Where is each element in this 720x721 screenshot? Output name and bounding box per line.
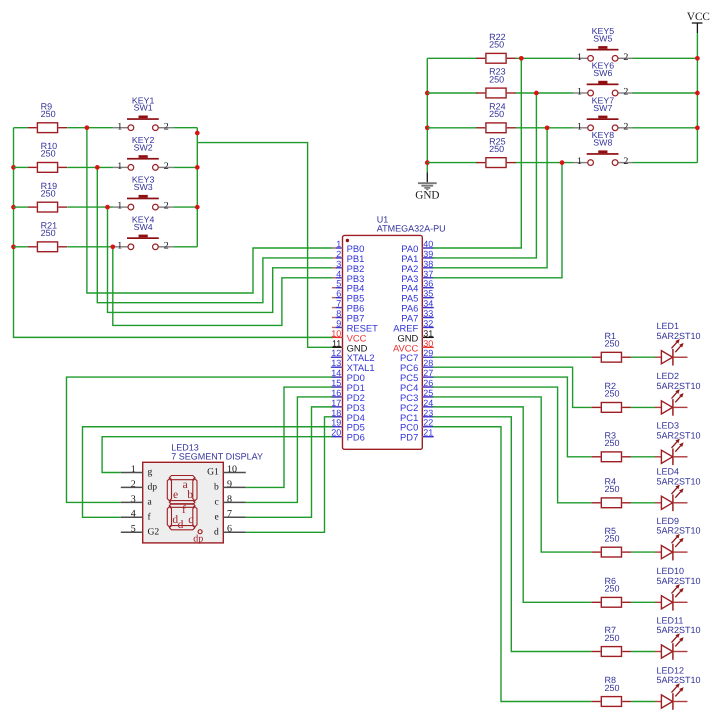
svg-text:3: 3 — [131, 494, 136, 505]
svg-text:250: 250 — [605, 683, 620, 693]
svg-text:5AR2ST10: 5AR2ST10 — [657, 625, 701, 635]
svg-text:PD7: PD7 — [400, 432, 418, 443]
svg-text:LED1: LED1 — [657, 321, 680, 331]
svg-text:31: 31 — [423, 328, 433, 338]
svg-text:8: 8 — [336, 309, 341, 319]
svg-text:250: 250 — [605, 438, 620, 448]
svg-text:13: 13 — [331, 358, 341, 368]
svg-text:1: 1 — [577, 52, 582, 63]
svg-text:10: 10 — [227, 464, 237, 475]
svg-text:25: 25 — [423, 388, 433, 398]
svg-text:ATMEGA32A-PU: ATMEGA32A-PU — [377, 224, 446, 234]
svg-text:5AR2ST10: 5AR2ST10 — [657, 430, 701, 440]
svg-text:c: c — [188, 514, 193, 526]
svg-text:SW3: SW3 — [134, 182, 153, 192]
svg-text:2: 2 — [623, 87, 628, 98]
svg-text:28: 28 — [423, 358, 433, 368]
svg-text:250: 250 — [41, 149, 56, 159]
svg-text:250: 250 — [605, 389, 620, 399]
svg-text:c: c — [215, 497, 219, 508]
svg-text:8: 8 — [227, 494, 232, 505]
svg-text:27: 27 — [423, 368, 433, 378]
svg-text:LED10: LED10 — [657, 566, 685, 576]
svg-text:250: 250 — [41, 188, 56, 198]
svg-text:LED2: LED2 — [657, 371, 680, 381]
svg-text:SW5: SW5 — [593, 33, 612, 43]
svg-text:LED12: LED12 — [657, 665, 685, 675]
svg-text:250: 250 — [41, 228, 56, 238]
svg-text:29: 29 — [423, 348, 433, 358]
svg-text:a: a — [148, 497, 153, 508]
svg-text:dp: dp — [148, 482, 158, 493]
svg-text:40: 40 — [423, 239, 433, 249]
svg-text:5AR2ST10: 5AR2ST10 — [657, 675, 701, 685]
svg-text:1: 1 — [577, 121, 582, 132]
svg-text:24: 24 — [423, 398, 433, 408]
svg-text:LED4: LED4 — [657, 467, 680, 477]
svg-text:34: 34 — [423, 299, 433, 309]
svg-text:1: 1 — [117, 121, 122, 132]
svg-text:e: e — [173, 489, 178, 501]
svg-text:3: 3 — [336, 259, 341, 269]
svg-text:250: 250 — [605, 484, 620, 494]
svg-text:250: 250 — [489, 109, 504, 119]
svg-text:SW4: SW4 — [134, 222, 153, 232]
svg-text:18: 18 — [331, 408, 341, 418]
svg-text:11: 11 — [332, 338, 341, 348]
svg-text:250: 250 — [41, 109, 56, 119]
svg-text:15: 15 — [331, 378, 341, 388]
svg-text:250: 250 — [489, 74, 504, 84]
svg-text:2: 2 — [623, 156, 628, 167]
svg-text:1: 1 — [117, 201, 122, 212]
svg-text:LED9: LED9 — [657, 516, 680, 526]
svg-text:g: g — [148, 467, 153, 478]
svg-text:17: 17 — [331, 398, 341, 408]
svg-text:4: 4 — [336, 269, 341, 279]
svg-text:2: 2 — [623, 52, 628, 63]
svg-text:10: 10 — [331, 328, 341, 338]
svg-text:30: 30 — [423, 338, 433, 348]
svg-text:5AR2ST10: 5AR2ST10 — [657, 381, 701, 391]
svg-text:2: 2 — [623, 121, 628, 132]
svg-text:d: d — [214, 527, 219, 538]
svg-text:250: 250 — [605, 533, 620, 543]
svg-text:5: 5 — [336, 279, 341, 289]
svg-text:37: 37 — [423, 269, 433, 279]
svg-text:36: 36 — [423, 279, 433, 289]
svg-text:2: 2 — [336, 249, 341, 259]
svg-text:9: 9 — [227, 479, 232, 490]
svg-text:LED3: LED3 — [657, 421, 680, 431]
svg-text:1: 1 — [577, 156, 582, 167]
svg-text:32: 32 — [423, 318, 433, 328]
svg-text:SW2: SW2 — [134, 142, 153, 152]
svg-text:5: 5 — [131, 524, 136, 535]
svg-text:2: 2 — [164, 161, 169, 172]
svg-text:7 SEGMENT DISPLAY: 7 SEGMENT DISPLAY — [171, 451, 263, 461]
svg-text:dp: dp — [193, 534, 203, 545]
svg-text:SW8: SW8 — [593, 138, 612, 148]
svg-text:b: b — [214, 482, 219, 493]
svg-text:5AR2ST10: 5AR2ST10 — [657, 331, 701, 341]
svg-text:250: 250 — [489, 40, 504, 50]
svg-text:16: 16 — [331, 388, 341, 398]
svg-text:1: 1 — [117, 240, 122, 251]
svg-text:VCC: VCC — [687, 11, 710, 23]
svg-text:33: 33 — [423, 309, 433, 319]
svg-text:LED11: LED11 — [657, 615, 684, 625]
svg-text:2: 2 — [131, 479, 136, 490]
svg-text:2: 2 — [164, 240, 169, 251]
svg-text:20: 20 — [331, 428, 341, 438]
svg-text:1: 1 — [131, 464, 136, 475]
svg-text:G1: G1 — [207, 467, 219, 478]
svg-text:2: 2 — [164, 121, 169, 132]
svg-text:35: 35 — [423, 289, 433, 299]
svg-text:7: 7 — [227, 509, 232, 520]
svg-text:6: 6 — [227, 524, 232, 535]
svg-text:9: 9 — [336, 318, 341, 328]
svg-text:GND: GND — [415, 189, 439, 201]
svg-text:7: 7 — [336, 299, 341, 309]
svg-text:250: 250 — [489, 144, 504, 154]
svg-text:SW6: SW6 — [593, 68, 612, 78]
svg-text:1: 1 — [336, 239, 341, 249]
svg-text:1: 1 — [117, 161, 122, 172]
svg-text:39: 39 — [423, 249, 433, 259]
svg-text:22: 22 — [423, 418, 433, 428]
svg-text:PD6: PD6 — [347, 432, 365, 443]
svg-text:d: d — [178, 519, 184, 531]
svg-text:250: 250 — [605, 633, 620, 643]
svg-text:5AR2ST10: 5AR2ST10 — [657, 576, 701, 586]
svg-text:38: 38 — [423, 259, 433, 269]
svg-text:5AR2ST10: 5AR2ST10 — [657, 476, 701, 486]
svg-text:26: 26 — [423, 378, 433, 388]
svg-text:5AR2ST10: 5AR2ST10 — [657, 526, 701, 536]
svg-text:2: 2 — [164, 201, 169, 212]
svg-text:G2: G2 — [148, 527, 160, 538]
svg-text:6: 6 — [336, 289, 341, 299]
svg-text:f: f — [182, 504, 186, 516]
svg-text:SW7: SW7 — [593, 103, 612, 113]
svg-text:e: e — [215, 512, 219, 523]
svg-text:12: 12 — [331, 348, 341, 358]
svg-text:14: 14 — [331, 368, 341, 378]
svg-text:SW1: SW1 — [134, 103, 153, 113]
svg-text:23: 23 — [423, 408, 433, 418]
svg-text:250: 250 — [605, 339, 620, 349]
svg-text:250: 250 — [605, 584, 620, 594]
svg-text:b: b — [187, 489, 193, 501]
svg-text:4: 4 — [131, 509, 136, 520]
svg-text:1: 1 — [577, 87, 582, 98]
svg-text:21: 21 — [423, 428, 433, 438]
svg-text:19: 19 — [331, 418, 341, 428]
